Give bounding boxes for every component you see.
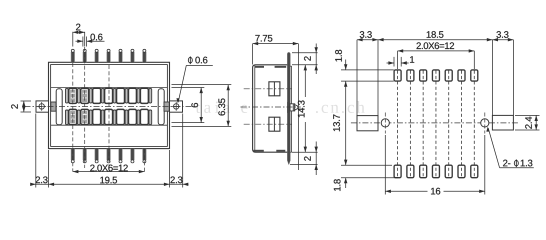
side view mounting peg (287, 102, 298, 113)
top pin 2 (83, 49, 86, 62)
bottom pad 1 (394, 165, 401, 178)
top pin 3 (95, 49, 98, 62)
watermark text run 2 (241, 101, 277, 113)
cavity divider 7 upper (137, 88, 140, 103)
right ear hole (172, 102, 181, 111)
pattern horizontal centerline (351, 122, 519, 124)
label 2-phi1.3 mounting holes (486, 127, 534, 168)
dimension 3.3 right pad width (492, 31, 513, 41)
cavity divider 6 upper (125, 88, 128, 103)
side view lower contact window (269, 117, 280, 131)
pad column 7 centerline (473, 71, 475, 178)
dimension chain extension lines top (357, 40, 513, 116)
dimension 1.8 bottom pad height (334, 165, 398, 191)
cavity slot 4 upper (105, 88, 113, 103)
front view right edge contact block (164, 102, 169, 111)
dimension 1.8 top pad height (335, 50, 394, 81)
top pad 1 (394, 70, 401, 81)
pad column 2 centerline (409, 71, 411, 178)
top pin 7 (143, 49, 146, 62)
bottom pin 6 (131, 149, 134, 163)
cavity slot 6 upper (128, 88, 136, 103)
front view vertical centerline middle (108, 65, 110, 172)
top pin 5 (119, 49, 122, 62)
side view lower window centerline (244, 123, 292, 125)
cavity slot 4 lower (105, 109, 113, 124)
cavity divider 3 upper (89, 88, 92, 103)
cavity divider 3 lower (89, 110, 92, 125)
side view top slot left (255, 66, 265, 68)
cavity divider 1 lower (65, 110, 68, 125)
cavity divider 8 lower (149, 110, 152, 125)
bottom pad 2 (407, 165, 414, 178)
dimension 13.7 pad gap (333, 81, 347, 165)
dimension 2.3 left ear overhang (30, 176, 47, 186)
cavity divider 4 upper (101, 88, 104, 103)
top pin 6 (131, 49, 134, 62)
cavity divider 7 lower (137, 110, 140, 125)
cavity divider 2 lower (77, 110, 80, 125)
right mounting hole (481, 113, 489, 134)
cavity slot 2 upper (81, 88, 89, 103)
side view bottom slot left (253, 150, 263, 152)
dimension 0.6 pin width (76, 34, 105, 47)
top pad 7 (471, 70, 478, 81)
top pad 5 (445, 70, 452, 81)
top pin 1 (71, 49, 74, 62)
left mounting pad (357, 116, 378, 131)
front view right guide slot (158, 89, 164, 125)
cavity divider 5 lower (113, 110, 116, 125)
cavity divider 5 upper (113, 88, 116, 103)
dimension 2.4 right pad height (515, 115, 540, 130)
cavity divider 1 upper (65, 88, 68, 103)
bottom pad 7 (471, 165, 478, 178)
bottom pad 5 (445, 165, 452, 178)
side view top slot right (275, 66, 287, 68)
cavity slot 7 upper (140, 88, 148, 103)
dimension 2 bottom pin protrusion (290, 142, 318, 176)
dimension 2 ear height (11, 101, 31, 112)
top pad 4 (432, 70, 439, 81)
dimension 3.3 left pad width (357, 31, 378, 41)
front view contact band lines (51, 88, 168, 126)
pad column 4 centerline (435, 71, 437, 178)
left ear hole (37, 102, 46, 111)
cavity slot 5 lower (117, 109, 125, 124)
cavity slot 1 lower (69, 109, 77, 124)
front view vertical centerline pin1 (72, 63, 74, 172)
front view left guide slot (56, 89, 62, 125)
watermark text run 1 (196, 102, 230, 113)
pad column 1 centerline (397, 71, 399, 178)
cavity slot 2 lower (81, 109, 89, 124)
label phi 0.6 ear hole (176, 56, 212, 103)
watermark text run 3 (316, 101, 365, 113)
front view vertical centerline pin7 (143, 149, 145, 172)
bottom pin 1 (71, 149, 74, 163)
dimension 16 hole span (385, 135, 485, 195)
cavity slot 1 upper (69, 88, 77, 103)
side view main centerline (241, 106, 301, 108)
bottom pin 4 (107, 149, 110, 163)
top pin 4 (107, 49, 110, 62)
dimension 19.5 body width (32, 114, 189, 188)
cavity slot 6 lower (128, 109, 136, 124)
right mounting pad (492, 115, 513, 130)
cavity divider 2 upper (77, 88, 80, 103)
bottom pin 7 (143, 149, 146, 163)
pad column 5 centerline (448, 71, 450, 178)
bottom pad 6 (458, 165, 465, 178)
dimension 6.35 body height (172, 85, 232, 127)
side view body outline (253, 65, 289, 152)
pad column 6 centerline (461, 71, 463, 178)
dimension 2.0X6=12 pad span (398, 42, 475, 69)
dimension 18.5 pad span (378, 31, 492, 41)
dimension 7.75 side width (253, 35, 299, 170)
cavity slot 3 upper (93, 88, 101, 103)
dimension 14.3 side height (298, 65, 307, 152)
right mounting ear (170, 101, 183, 112)
front view vertical centerline pin2 (84, 47, 86, 168)
dimension 6 contact band height (172, 88, 205, 123)
left mounting hole (381, 113, 389, 134)
cavity divider 8 upper (149, 88, 152, 103)
top pad 2 (407, 70, 414, 81)
top pad 6 (458, 70, 465, 81)
front view body outline (49, 62, 170, 148)
front view horizontal centerline (25, 106, 194, 108)
bottom pin 2 (83, 149, 86, 163)
side view upper contact window (269, 82, 280, 96)
bottom pin 3 (95, 149, 98, 163)
bottom pad 4 (432, 165, 439, 178)
cavity divider 6 lower (125, 110, 128, 125)
dimension 2 pin pitch (73, 24, 85, 47)
side view pin row (287, 52, 291, 164)
cavity slot 5 upper (117, 88, 125, 103)
side view bottom slot right (276, 150, 285, 152)
cavity slot 3 lower (93, 109, 101, 124)
bottom pin 5 (119, 149, 122, 163)
cavity divider 4 lower (101, 110, 104, 125)
dimension 2 top pin protrusion (292, 44, 318, 75)
pad column 3 centerline (422, 71, 424, 178)
left mounting ear (36, 101, 49, 112)
side view upper window centerline (244, 88, 292, 90)
dimension 2.3 right ear overhang (170, 176, 188, 186)
top pad 3 (420, 70, 427, 81)
dimension 1 pad width (387, 56, 415, 66)
cavity slot 7 lower (140, 109, 148, 124)
bottom pad 3 (420, 165, 427, 178)
front view left edge contact block (51, 102, 56, 111)
dimension 2.0X6=12 pin span (73, 165, 145, 174)
